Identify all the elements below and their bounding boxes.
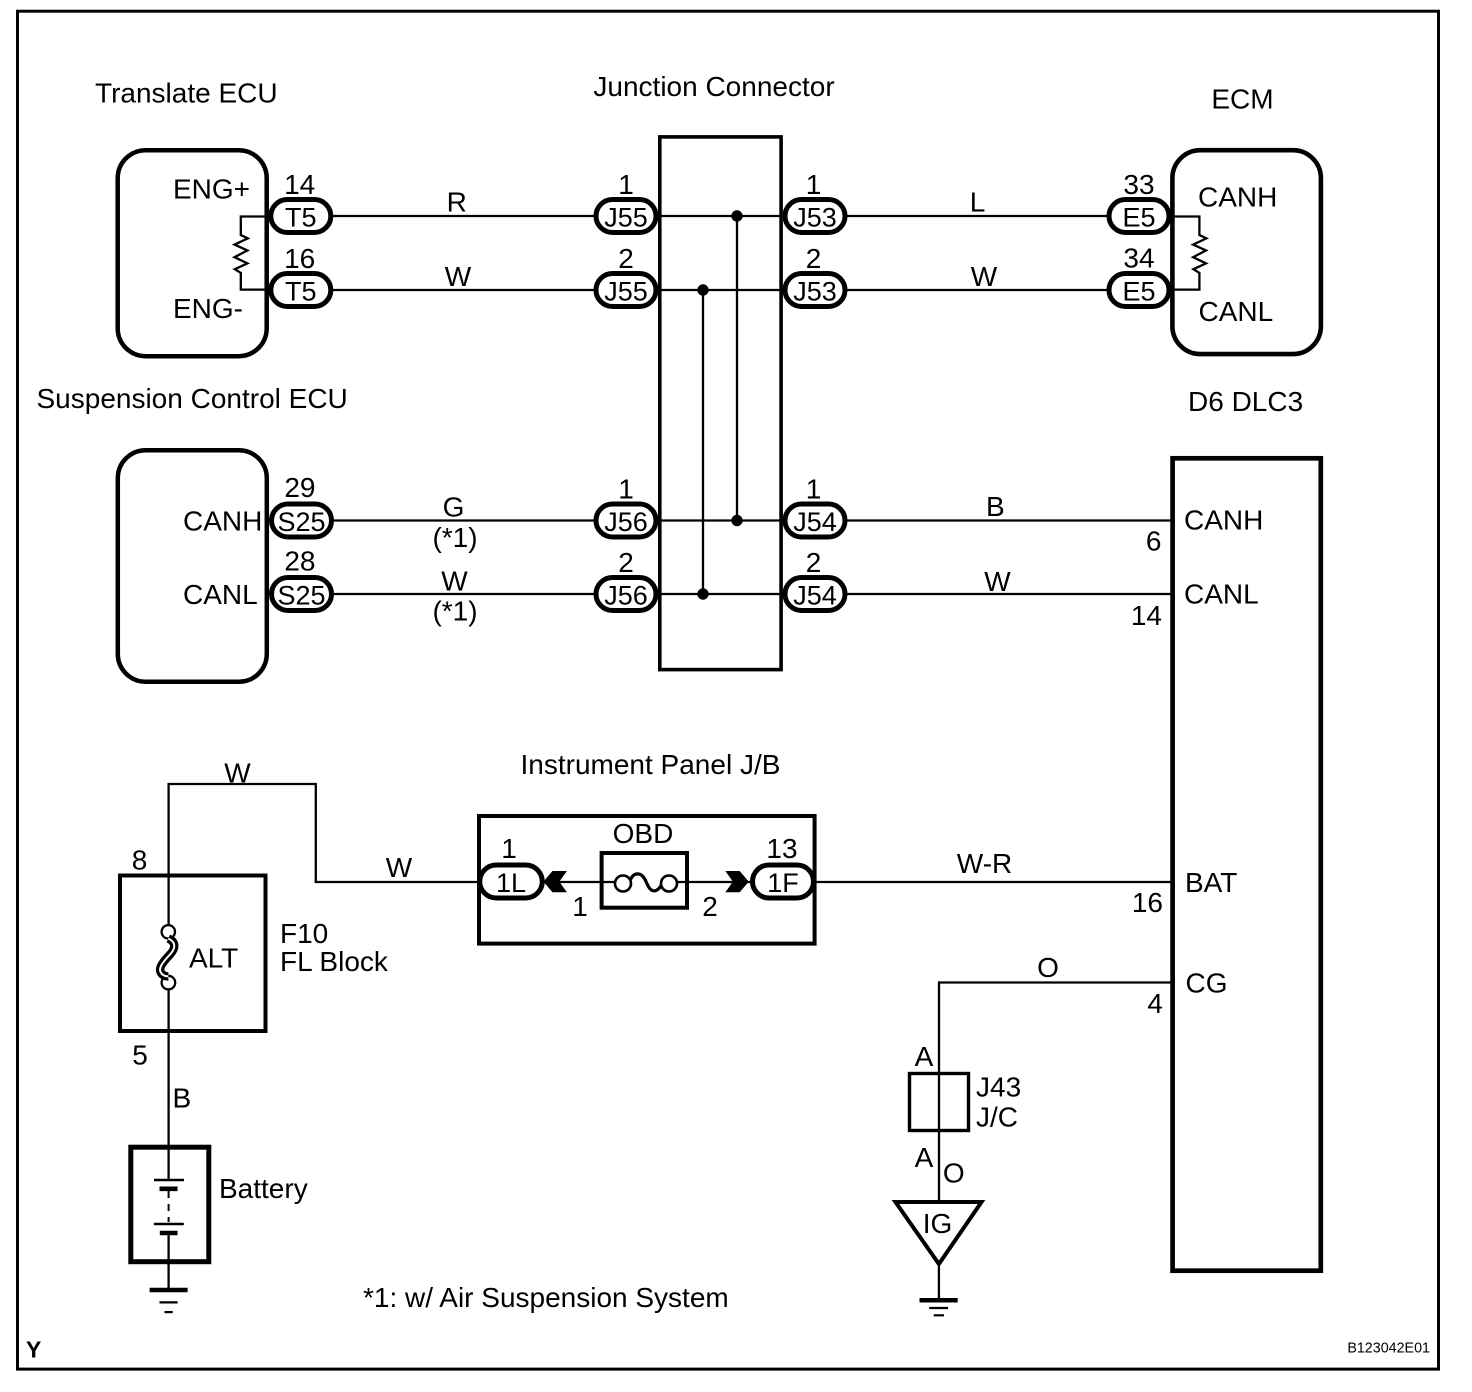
svg-text:34: 34 [1123, 243, 1154, 274]
svg-text:6: 6 [1146, 526, 1162, 557]
svg-text:A: A [915, 1142, 934, 1173]
fusible link ALT [162, 925, 175, 938]
svg-text:L: L [970, 186, 986, 217]
svg-text:CANH: CANH [1184, 505, 1263, 536]
svg-text:1F: 1F [767, 868, 799, 898]
ground symbol under IG [920, 1298, 958, 1303]
svg-text:29: 29 [284, 472, 315, 503]
svg-text:16: 16 [1132, 887, 1163, 918]
svg-text:R: R [447, 186, 467, 217]
wire CANL bus inside junction connector [702, 290, 704, 594]
svg-text:(*1): (*1) [432, 596, 477, 627]
arrow right [725, 871, 749, 892]
connector T5 pin 14 [271, 200, 331, 233]
svg-text:CANL: CANL [1184, 579, 1259, 610]
junction connector box [660, 137, 781, 670]
wire CANH bus inside junction connector [736, 216, 738, 521]
wire 1F to DLC3 BAT [814, 881, 1172, 883]
svg-text:CANH: CANH [183, 506, 262, 537]
wire CANH: T5-14 to J55-1 to J53-1 to E5-33 [331, 215, 1171, 217]
fuse element OBD [615, 876, 631, 892]
svg-text:W: W [386, 852, 413, 883]
junction dot [731, 515, 742, 526]
junction dot [697, 284, 708, 295]
svg-text:CANH: CANH [1198, 182, 1277, 213]
junction dot [697, 588, 708, 599]
svg-text:CANL: CANL [183, 579, 258, 610]
svg-text:W: W [984, 566, 1011, 597]
svg-text:BAT: BAT [1185, 867, 1237, 898]
wire battery to ground [167, 1235, 169, 1288]
svg-text:S25: S25 [277, 581, 325, 611]
connector J56 pin 2 [596, 578, 656, 611]
connector 1L [480, 865, 543, 898]
svg-text:1: 1 [806, 169, 822, 200]
svg-text:33: 33 [1123, 169, 1154, 200]
svg-text:B: B [172, 1083, 191, 1114]
svg-text:B123042E01: B123042E01 [1347, 1341, 1430, 1357]
svg-text:W: W [971, 261, 998, 292]
svg-text:(*1): (*1) [432, 522, 477, 553]
connector S25 pin 29 [272, 504, 332, 537]
connector J54 pin 1 [785, 504, 845, 537]
terminating resistor inside ECM [1172, 217, 1207, 290]
svg-text:13: 13 [766, 833, 797, 864]
svg-text:O: O [943, 1158, 965, 1189]
connector T5 pin 16 [271, 274, 331, 307]
svg-text:Junction Connector: Junction Connector [593, 71, 834, 102]
DLC3 box [1173, 458, 1321, 1270]
svg-text:1: 1 [501, 833, 517, 864]
wire through F10 block down to battery [167, 875, 169, 925]
svg-text:CG: CG [1186, 968, 1228, 999]
svg-text:S25: S25 [277, 507, 325, 537]
connector J56 pin 1 [596, 504, 656, 537]
svg-text:J56: J56 [604, 581, 648, 611]
svg-text:14: 14 [284, 169, 315, 200]
svg-text:D6 DLC3: D6 DLC3 [1188, 386, 1303, 417]
svg-text:ENG-: ENG- [173, 293, 243, 324]
svg-text:*1: w/ Air Suspension System: *1: w/ Air Suspension System [363, 1282, 729, 1313]
arrow left [543, 871, 567, 892]
svg-text:ALT: ALT [189, 943, 238, 974]
junction dot [731, 210, 742, 221]
junction connector J43 J/C [910, 1074, 969, 1131]
svg-text:IG: IG [923, 1208, 953, 1239]
wire IG to ground [938, 1264, 940, 1298]
Translate ECU box [118, 150, 267, 356]
svg-text:2: 2 [618, 547, 634, 578]
connector 1F [753, 865, 814, 898]
svg-text:A: A [915, 1041, 934, 1072]
F10 FL block box [120, 876, 266, 1032]
svg-text:1: 1 [806, 474, 822, 505]
svg-text:16: 16 [284, 243, 315, 274]
svg-text:5: 5 [132, 1040, 148, 1071]
connector E5 pin 34 [1109, 274, 1169, 307]
svg-text:J53: J53 [793, 203, 837, 233]
svg-text:FL Block: FL Block [280, 946, 389, 977]
svg-text:J55: J55 [604, 277, 648, 307]
svg-text:ECM: ECM [1211, 84, 1273, 115]
svg-text:J55: J55 [604, 203, 648, 233]
battery cell symbol [154, 1179, 184, 1182]
svg-text:J43: J43 [976, 1072, 1021, 1103]
svg-text:OBD: OBD [613, 818, 674, 849]
svg-text:1: 1 [572, 891, 588, 922]
svg-text:4: 4 [1147, 988, 1163, 1019]
wire OBD fuse to 1F [674, 881, 752, 883]
IG triangle [896, 1202, 982, 1264]
svg-text:J/C: J/C [976, 1102, 1018, 1133]
Battery box [131, 1147, 209, 1262]
svg-text:2: 2 [806, 547, 822, 578]
svg-text:W: W [441, 566, 468, 597]
svg-text:2: 2 [806, 243, 822, 274]
svg-text:J56: J56 [604, 507, 648, 537]
wire CANH: S25-29 to J56-1 to J54-1 to DLC3 pin 6 [331, 519, 1172, 521]
svg-text:W: W [224, 758, 251, 789]
svg-text:Translate ECU: Translate ECU [95, 78, 278, 109]
wire W: alternator to Instrument Panel J/B [169, 784, 478, 882]
Instrument Panel J/B box [479, 816, 815, 944]
Suspension Control ECU box [118, 450, 267, 682]
connector J54 pin 2 [785, 578, 845, 611]
svg-text:2: 2 [618, 243, 634, 274]
svg-text:14: 14 [1131, 600, 1162, 631]
svg-text:W: W [445, 261, 472, 292]
wire 1L to OBD fuse [541, 881, 615, 883]
svg-text:8: 8 [132, 845, 148, 876]
svg-text:Instrument Panel J/B: Instrument Panel J/B [521, 749, 781, 780]
wire CANL: S25-28 to J56-2 to J54-2 to DLC3 pin 14 [331, 593, 1172, 595]
svg-text:J53: J53 [793, 277, 837, 307]
wire O: DLC3 CG to J43 to IG [939, 983, 1172, 1201]
svg-text:G: G [443, 492, 465, 523]
svg-text:F10: F10 [280, 918, 328, 949]
svg-text:28: 28 [284, 546, 315, 577]
svg-text:T5: T5 [285, 277, 317, 307]
svg-text:2: 2 [702, 891, 718, 922]
connector S25 pin 28 [272, 578, 332, 611]
svg-text:CANL: CANL [1199, 296, 1274, 327]
ground symbol under battery [150, 1288, 188, 1293]
wire CANL: T5-16 to J55-2 to J53-2 to E5-34 [331, 289, 1171, 291]
svg-text:Y: Y [26, 1337, 41, 1363]
svg-text:J54: J54 [793, 581, 837, 611]
svg-text:W-R: W-R [957, 848, 1012, 879]
svg-text:O: O [1037, 952, 1059, 983]
connector J53 pin 1 [785, 200, 845, 233]
svg-text:B: B [986, 491, 1005, 522]
svg-text:1L: 1L [496, 868, 526, 898]
svg-text:1: 1 [618, 474, 634, 505]
terminating resistor inside Translate ECU [235, 217, 269, 290]
connector J53 pin 2 [785, 274, 845, 307]
svg-text:J54: J54 [793, 507, 837, 537]
connector E5 pin 33 [1109, 200, 1169, 233]
svg-text:Battery: Battery [219, 1173, 308, 1204]
OBD fuse box [602, 853, 687, 908]
svg-text:E5: E5 [1122, 277, 1155, 307]
svg-text:ENG+: ENG+ [173, 174, 250, 205]
connector J55 pin 2 [596, 274, 656, 307]
svg-text:E5: E5 [1122, 203, 1155, 233]
connector J55 pin 1 [596, 200, 656, 233]
svg-text:1: 1 [618, 169, 634, 200]
svg-text:T5: T5 [285, 203, 317, 233]
ECM box [1172, 150, 1321, 354]
svg-text:Suspension Control ECU: Suspension Control ECU [37, 383, 348, 414]
